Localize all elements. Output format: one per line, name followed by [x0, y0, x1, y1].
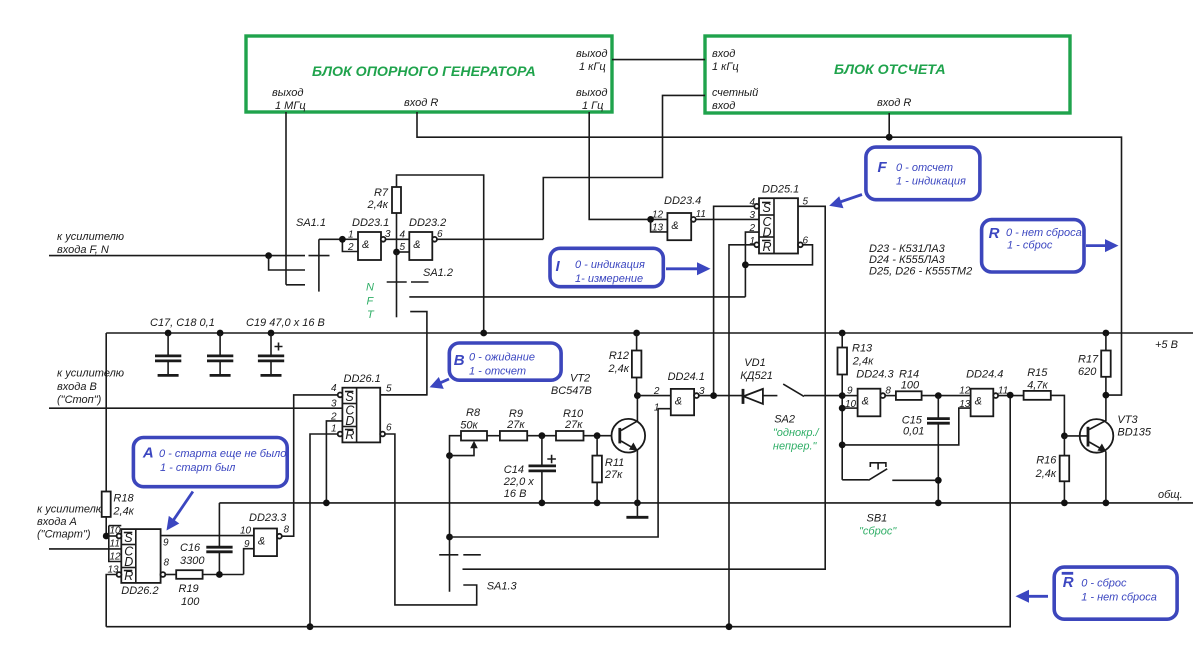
- svg-text:22,0 х: 22,0 х: [503, 476, 534, 488]
- wire 1kHz link between blocks: [612, 59, 705, 61]
- svg-text:DD23.2: DD23.2: [409, 217, 446, 229]
- note chip types list: [869, 243, 972, 278]
- pin 4 S wire: [754, 204, 759, 209]
- svg-text:1 МГц: 1 МГц: [275, 100, 306, 112]
- svg-text:выход: выход: [272, 87, 303, 99]
- svg-text:100: 100: [901, 380, 920, 392]
- pin 8 output bubble: [161, 572, 166, 577]
- node R15 R16 base VT3: [1061, 433, 1068, 440]
- capacitor C17: [155, 330, 181, 376]
- resistor R17: [1078, 330, 1111, 421]
- svg-text:1 Гц: 1 Гц: [582, 100, 603, 112]
- svg-text:R19: R19: [179, 583, 199, 595]
- svg-text:N: N: [366, 282, 374, 294]
- svg-text:БЛОК ОПОРНОГО ГЕНЕРАТОРА: БЛОК ОПОРНОГО ГЕНЕРАТОРА: [312, 64, 536, 80]
- pin 2 D loop and pin 6: [745, 232, 759, 297]
- pin 9 output to DD23.3: [161, 535, 254, 537]
- svg-text:R17: R17: [1078, 354, 1099, 366]
- node R10 R11 base: [594, 432, 601, 439]
- switch SA1.2: [380, 252, 745, 395]
- svg-text:13: 13: [652, 223, 664, 234]
- svg-text:F: F: [878, 159, 888, 176]
- svg-text:выход: выход: [576, 87, 607, 99]
- resistor R9: [500, 408, 556, 441]
- svg-text:R: R: [1063, 574, 1074, 591]
- pin 11 12 label frames: [109, 525, 122, 527]
- node R9 R10 C14: [539, 432, 546, 439]
- gate DD24.3: [842, 369, 896, 417]
- svg-text:+5 В: +5 В: [1155, 339, 1178, 351]
- svg-text:DD23.3: DD23.3: [249, 512, 287, 524]
- svg-text:1: 1: [348, 230, 354, 241]
- svg-text:1 - индикация: 1 - индикация: [896, 176, 966, 188]
- +5V bus: [106, 332, 1193, 334]
- svg-text:2,4к: 2,4к: [608, 363, 630, 375]
- pin 2 D wire down to common: [326, 421, 342, 503]
- svg-text:КД521: КД521: [740, 370, 773, 382]
- svg-text:0 - старта еще не было: 0 - старта еще не было: [159, 448, 286, 460]
- resistor R12: [608, 330, 642, 396]
- svg-text:R18: R18: [113, 493, 134, 505]
- svg-text:3: 3: [385, 229, 391, 240]
- label input B stop: [57, 368, 124, 407]
- svg-text:5: 5: [400, 242, 406, 253]
- push button SB1: [842, 463, 938, 538]
- potentiometer R8: [446, 407, 500, 459]
- svg-text:1 - старт был: 1 - старт был: [160, 462, 235, 474]
- left +5V rail down to R18: [105, 333, 107, 492]
- svg-text:27к: 27к: [506, 419, 525, 431]
- gate DD23.4: [647, 195, 759, 240]
- svg-text:BD135: BD135: [1117, 427, 1152, 439]
- svg-text:C16: C16: [180, 542, 201, 554]
- svg-text:вход: вход: [712, 48, 735, 60]
- svg-text:DD23.4: DD23.4: [664, 195, 701, 207]
- svg-text:1: 1: [654, 403, 660, 414]
- svg-text:4: 4: [400, 230, 406, 241]
- svg-text:13: 13: [108, 565, 120, 576]
- wire R19 up to DD23.3 pin 9: [244, 549, 254, 575]
- svg-text:VT2: VT2: [570, 373, 590, 385]
- svg-text:к усилителю: к усилителю: [57, 368, 124, 380]
- svg-text:вход R: вход R: [877, 97, 911, 109]
- svg-text:входа F, N: входа F, N: [57, 244, 109, 256]
- wire input A to DD26.2 pin 11: [49, 548, 121, 550]
- svg-text:1 кГц: 1 кГц: [579, 61, 606, 73]
- svg-text:2: 2: [748, 223, 755, 234]
- svg-text:общ.: общ.: [1158, 489, 1183, 501]
- wire vhod R of generator: down, right along y=137.2, down at x=1121.5 to VT3 collector node: [417, 112, 1122, 395]
- svg-text:10: 10: [110, 526, 122, 537]
- svg-text:0 - отсчет: 0 - отсчет: [896, 162, 953, 174]
- svg-text:1 - сброс: 1 - сброс: [1007, 239, 1053, 251]
- info box R-bar: [1016, 567, 1178, 619]
- capacitor C19 polarized: [258, 330, 284, 376]
- svg-text:D: D: [345, 414, 354, 428]
- svg-text:9: 9: [847, 386, 853, 397]
- resistor R19: [176, 570, 243, 608]
- pin 5 output: [380, 394, 427, 396]
- capacitor C14 polarized: [503, 436, 556, 507]
- svg-text:счетный: счетный: [712, 87, 758, 99]
- svg-text:0 - индикация: 0 - индикация: [575, 259, 645, 271]
- svg-text:1: 1: [331, 424, 337, 435]
- pin 1 R wire down to bottom bus: [754, 242, 759, 247]
- capacitor C15: [902, 396, 950, 507]
- svg-text:100: 100: [181, 596, 200, 608]
- pin 5 output down to SA1.3 middle contact: [463, 206, 826, 569]
- svg-text:12: 12: [959, 386, 971, 397]
- svg-text:1 - нет сброса: 1 - нет сброса: [1081, 592, 1157, 604]
- svg-text:R: R: [763, 240, 772, 254]
- svg-text:VT3: VT3: [1117, 414, 1138, 426]
- switch SA1.3: [439, 555, 517, 593]
- svg-text:3: 3: [699, 386, 705, 397]
- svg-text:2,4к: 2,4к: [112, 506, 134, 518]
- svg-text:C17, C18 0,1: C17, C18 0,1: [150, 317, 215, 329]
- svg-text:вход R: вход R: [404, 97, 438, 109]
- svg-text:("Стоп"): ("Стоп"): [57, 394, 102, 406]
- svg-text:10: 10: [845, 399, 857, 410]
- flip-flop DD26.1: [307, 373, 477, 630]
- svg-text:9: 9: [163, 538, 169, 549]
- svg-text:4,7к: 4,7к: [1027, 380, 1048, 392]
- svg-text:11: 11: [696, 209, 706, 220]
- flip-flop DD26.2: [103, 526, 254, 627]
- svg-text:B: B: [454, 352, 465, 369]
- info box A: [133, 438, 287, 531]
- svg-text:0 - нет сброса: 0 - нет сброса: [1006, 227, 1082, 239]
- svg-text:3300: 3300: [180, 555, 205, 567]
- block reference generator U-REF: [246, 36, 612, 112]
- info box I: [550, 248, 711, 286]
- switch SA2: [773, 384, 842, 452]
- svg-text:4: 4: [331, 383, 337, 394]
- wire R8 node down to SA1.3 and DD24.1 pin1 net: [449, 456, 451, 592]
- svg-text:&: &: [671, 220, 678, 232]
- svg-text:D: D: [124, 555, 133, 569]
- wire vhod R of counter block down: [888, 113, 890, 137]
- transistor VT2: [551, 373, 645, 507]
- pin 1 R wire down to bottom bus: [338, 432, 343, 437]
- svg-text:&: &: [258, 536, 265, 548]
- label input A start: [37, 504, 104, 541]
- resistor R7: [367, 175, 484, 333]
- node vhod R counter joint: [886, 134, 893, 141]
- pin 13 R wire to bottom bus: [117, 572, 122, 577]
- svg-text:SA1.1: SA1.1: [296, 217, 326, 229]
- svg-text:2,4к: 2,4к: [367, 199, 389, 211]
- wire 1Hz output net to DD23.4: [589, 112, 667, 219]
- ground bar under VT2: [626, 503, 648, 517]
- pin 4 S bubble: [338, 393, 343, 398]
- svg-text:входа B: входа B: [57, 381, 97, 393]
- gate DD23.2: [393, 217, 543, 260]
- svg-text:БЛОК ОТСЧЕТА: БЛОК ОТСЧЕТА: [834, 62, 946, 78]
- svg-text:6: 6: [386, 423, 392, 434]
- svg-text:3: 3: [749, 210, 755, 221]
- svg-text:R7: R7: [374, 187, 389, 199]
- svg-text:6: 6: [803, 236, 809, 247]
- svg-text:0 - ожидание: 0 - ожидание: [469, 352, 535, 364]
- svg-text:27к: 27к: [564, 419, 583, 431]
- svg-text:13: 13: [959, 399, 971, 410]
- resistor R18: [102, 492, 135, 537]
- svg-text:8: 8: [164, 558, 170, 569]
- resistor R11: [592, 436, 624, 507]
- info box R: [982, 220, 1119, 272]
- capacitor C16: [180, 503, 233, 578]
- svg-text:выход: выход: [576, 48, 607, 60]
- resistor R15: [1024, 367, 1065, 436]
- resistor R14: [896, 369, 971, 400]
- switch SA1.1: [269, 217, 343, 292]
- svg-text:3: 3: [331, 399, 337, 410]
- svg-text:5: 5: [803, 197, 809, 208]
- resistor R10: [556, 408, 620, 441]
- svg-text:1 кГц: 1 кГц: [712, 61, 739, 73]
- svg-text:12: 12: [110, 552, 122, 563]
- info box F: [829, 147, 980, 208]
- svg-text:R16: R16: [1036, 455, 1057, 467]
- svg-text:16 В: 16 В: [504, 488, 527, 500]
- svg-text:входа А: входа А: [37, 516, 77, 528]
- wire input F,N: [49, 255, 305, 257]
- svg-text:C19 47,0 x 16 В: C19 47,0 x 16 В: [246, 317, 325, 329]
- block counter U-CNT: [705, 36, 1070, 113]
- gate DD23.3: [240, 395, 340, 556]
- svg-text:&: &: [862, 396, 869, 408]
- svg-text:вход: вход: [712, 100, 735, 112]
- svg-text:27к: 27к: [604, 469, 623, 481]
- svg-text:SA1.3: SA1.3: [487, 581, 518, 593]
- svg-text:"сброс": "сброс": [859, 526, 897, 538]
- svg-text:DD24.1: DD24.1: [668, 371, 705, 383]
- svg-text:5: 5: [386, 384, 392, 395]
- svg-text:("Старт"): ("Старт"): [37, 529, 91, 541]
- svg-text:11: 11: [110, 539, 120, 550]
- svg-text:R15: R15: [1027, 367, 1048, 379]
- diode VD1: [740, 357, 777, 404]
- svg-text:8: 8: [284, 525, 290, 536]
- svg-text:к усилителю: к усилителю: [57, 231, 124, 243]
- svg-text:BC547B: BC547B: [551, 385, 592, 397]
- svg-text:1 - отсчет: 1 - отсчет: [469, 366, 526, 378]
- common bus obshch: [219, 502, 1193, 504]
- svg-text:C14: C14: [504, 464, 524, 476]
- svg-text:VD1: VD1: [744, 357, 765, 369]
- svg-text:50к: 50к: [460, 420, 478, 432]
- svg-text:2,4к: 2,4к: [852, 356, 874, 368]
- svg-text:R: R: [989, 225, 1000, 242]
- bottom reset bus R net: [106, 395, 1010, 627]
- svg-text:DD24.3: DD24.3: [856, 369, 894, 381]
- svg-text:2,4к: 2,4к: [1035, 468, 1057, 480]
- svg-text:DD23.1: DD23.1: [352, 217, 389, 229]
- wire input B to DD26.1 pin 3: [49, 407, 342, 409]
- svg-text:SB1: SB1: [867, 513, 888, 525]
- svg-text:1- измерение: 1- измерение: [575, 273, 643, 285]
- svg-text:R11: R11: [605, 457, 624, 469]
- svg-text:D25, D26 - К555ТМ2: D25, D26 - К555ТМ2: [869, 266, 972, 278]
- svg-text:1: 1: [749, 236, 755, 247]
- node SA1.1 input: [265, 252, 272, 259]
- pin 10 S wire with node: [117, 534, 122, 539]
- svg-text:R13: R13: [852, 343, 873, 355]
- svg-text:&: &: [413, 239, 420, 251]
- transistor VT3: [1064, 414, 1152, 506]
- flip-flop DD25.1: [463, 184, 826, 627]
- svg-text:&: &: [362, 239, 369, 251]
- svg-text:"однокр./: "однокр./: [773, 427, 820, 439]
- svg-text:0 - сброс: 0 - сброс: [1081, 578, 1127, 590]
- svg-text:9: 9: [244, 539, 250, 550]
- svg-text:DD24.4: DD24.4: [966, 369, 1003, 381]
- svg-text:4: 4: [749, 197, 755, 208]
- node R14 C15: [935, 392, 942, 399]
- svg-text:&: &: [675, 396, 682, 408]
- svg-text:620: 620: [1078, 366, 1097, 378]
- svg-text:R12: R12: [609, 350, 629, 362]
- wire schetny vhod net: [543, 95, 705, 239]
- svg-text:12: 12: [652, 210, 664, 221]
- svg-text:2: 2: [330, 412, 337, 423]
- svg-text:0,01: 0,01: [903, 426, 924, 438]
- node R7 pullup on +5V: [480, 330, 487, 337]
- resistor R13: [838, 330, 875, 480]
- svg-text:&: &: [975, 396, 982, 408]
- gate DD24.4: [842, 369, 1023, 445]
- pin 6 output to SA1.3 bottom contact: [380, 432, 385, 437]
- gate DD24.1: [637, 371, 743, 415]
- capacitor C18: [207, 330, 233, 376]
- resistor R16: [1035, 436, 1070, 506]
- svg-text:D: D: [763, 226, 772, 240]
- svg-text:D23 - К531ЛА3: D23 - К531ЛА3: [869, 243, 946, 255]
- svg-text:10: 10: [240, 526, 252, 537]
- label input F,N: [57, 231, 124, 256]
- svg-text:SA1.2: SA1.2: [423, 267, 453, 279]
- svg-text:A: A: [142, 445, 154, 462]
- svg-text:11: 11: [998, 386, 1008, 397]
- svg-text:2: 2: [653, 386, 660, 397]
- svg-text:DD26.2: DD26.2: [121, 585, 158, 597]
- gate DD23.1: [339, 217, 409, 260]
- svg-text:SA2: SA2: [774, 414, 795, 426]
- svg-text:DD25.1: DD25.1: [762, 184, 799, 196]
- svg-text:к усилителю: к усилителю: [37, 504, 104, 516]
- svg-text:2: 2: [347, 242, 354, 253]
- wire 1MHz output down to SA1.1: [285, 112, 287, 285]
- svg-text:R8: R8: [466, 407, 481, 419]
- svg-text:непрер.": непрер.": [773, 441, 818, 453]
- info box B: [430, 343, 561, 389]
- svg-text:8: 8: [885, 386, 891, 397]
- svg-text:D24 - К555ЛА3: D24 - К555ЛА3: [869, 254, 946, 266]
- switch position letters N F T: [366, 282, 375, 322]
- svg-text:DD26.1: DD26.1: [344, 373, 381, 385]
- svg-text:6: 6: [437, 229, 443, 240]
